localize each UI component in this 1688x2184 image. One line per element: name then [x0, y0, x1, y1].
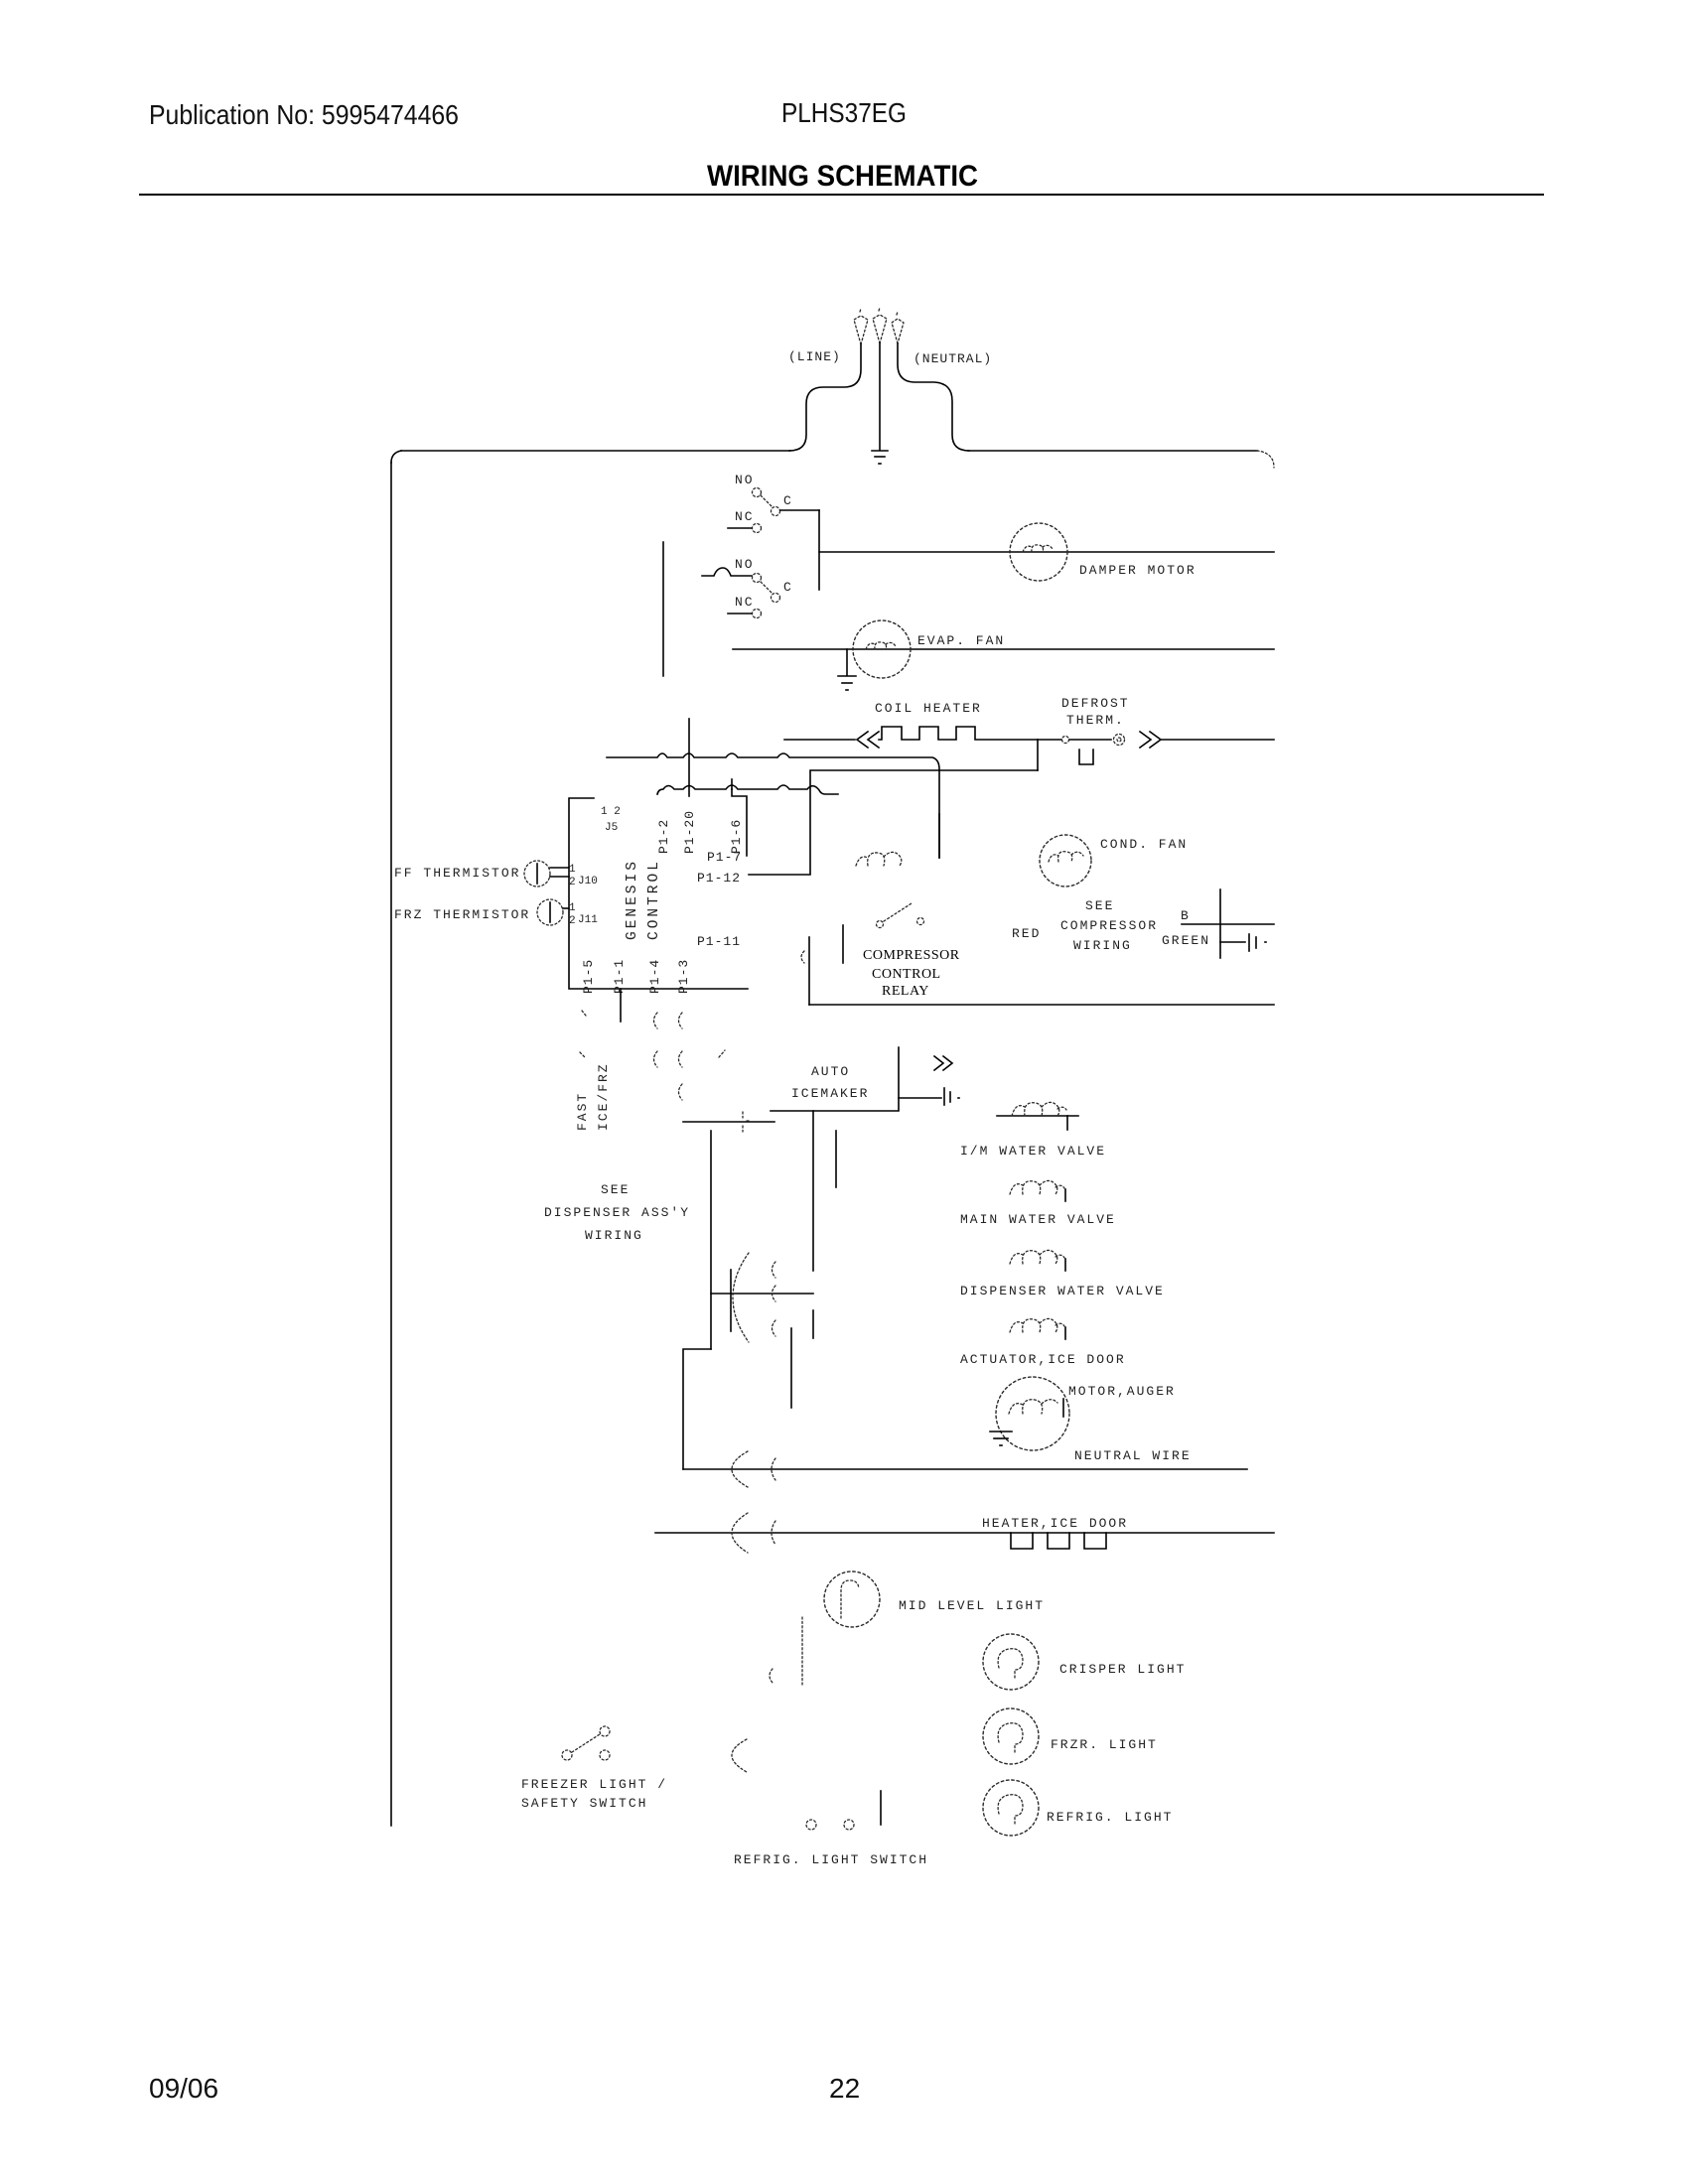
auger motor	[996, 1377, 1069, 1450]
wire: NEUTRAL prong lead down to top bus	[898, 343, 969, 451]
wire: fast ice feed line	[683, 1121, 774, 1123]
svg-text:1: 1	[569, 864, 576, 876]
damper switch (upper): moving contact arm	[761, 495, 773, 507]
wire: heater ice door line	[655, 1532, 1274, 1534]
wire: icemaker drop lower segment	[812, 1310, 814, 1338]
wire: dispenser cross horizontal	[711, 1293, 813, 1295]
wire: relay coil right riser top	[938, 814, 940, 858]
crisper light	[983, 1634, 1039, 1690]
svg-text:DISPENSER ASS'Y: DISPENSER ASS'Y	[544, 1205, 690, 1220]
svg-text:CONTROL: CONTROL	[872, 967, 941, 982]
svg-text:22: 22	[829, 2073, 860, 2104]
refrig light switch	[806, 1791, 881, 1830]
wire: neutral bus	[683, 1468, 1247, 1470]
svg-text:(LINE): (LINE)	[788, 349, 841, 364]
svg-text:NO: NO	[735, 557, 755, 572]
I/M water valve coil	[997, 1102, 1078, 1130]
svg-text:RED: RED	[1012, 926, 1041, 941]
svg-text:P1-6: P1-6	[729, 819, 744, 854]
wire: lower switch NC lead	[728, 613, 752, 614]
dispenser water valve coil	[1010, 1250, 1065, 1271]
connector arc below mid light	[770, 1669, 773, 1683]
wire: small vertical at dispenser cross	[730, 1270, 732, 1331]
svg-text:SAFETY SWITCH: SAFETY SWITCH	[521, 1796, 647, 1811]
svg-text:MOTOR,AUGER: MOTOR,AUGER	[1068, 1384, 1176, 1399]
wire: crossover line 1 (to compressor relay coil)	[607, 753, 939, 858]
svg-text:NC: NC	[735, 595, 755, 610]
svg-text:GENESIS: GENESIS	[625, 859, 640, 940]
wire: LINE prong lead down to top bus	[789, 344, 861, 451]
freezer door switch (lower): NO contact	[753, 574, 762, 583]
svg-text:AUTO: AUTO	[811, 1064, 850, 1079]
damper switch (upper): NO contact	[753, 488, 762, 497]
svg-text:COND. FAN: COND. FAN	[1100, 837, 1188, 852]
svg-text:1: 1	[569, 902, 576, 914]
wire: lower switch common lead with hump	[702, 568, 752, 576]
svg-text:DEFROST: DEFROST	[1061, 696, 1130, 711]
actuator ice door coil	[1010, 1318, 1065, 1339]
svg-text:C: C	[783, 580, 793, 595]
wire: crossover line 2 (P1-6 run)	[657, 785, 838, 794]
tick near icemaker feed	[719, 1050, 725, 1057]
connector single fast ice row	[679, 1084, 683, 1100]
wire: short vertical above genesis box	[662, 542, 664, 676]
wire: green capacitor lead	[1220, 941, 1245, 943]
wire: top bus right segment	[968, 450, 1257, 452]
svg-text:P1-12: P1-12	[697, 871, 741, 886]
wire: B line horizontal	[1182, 923, 1274, 925]
wire: junction riser from defrost line	[1037, 740, 1039, 770]
defrost coil heater element (square wave)	[879, 727, 1038, 740]
svg-text:FRZ THERMISTOR: FRZ THERMISTOR	[394, 907, 530, 922]
svg-text:B: B	[1181, 908, 1191, 923]
svg-text:C: C	[783, 493, 793, 508]
svg-text:P1-5: P1-5	[581, 959, 596, 994]
wire: FRZ thermistor lead	[563, 907, 569, 909]
svg-text:P1-20: P1-20	[682, 810, 697, 854]
defrost thermostat contact double circle	[1114, 735, 1125, 746]
svg-text:COMPRESSOR: COMPRESSOR	[863, 948, 960, 963]
svg-text:P1-4: P1-4	[647, 959, 662, 994]
wire: defrost line mid segment	[1069, 739, 1111, 741]
svg-text:J10: J10	[578, 876, 598, 887]
polarity ticks on fast ice feed	[743, 1112, 750, 1132]
wire: dispenser drop vertical	[710, 1131, 712, 1349]
svg-text:WIRING SCHEMATIC: WIRING SCHEMATIC	[707, 160, 978, 193]
title rule	[139, 194, 1544, 196]
svg-text:NO: NO	[735, 473, 755, 487]
connector arcs on heater line	[732, 1513, 775, 1553]
svg-text:HEATER,ICE DOOR: HEATER,ICE DOOR	[982, 1516, 1128, 1531]
svg-text:FAST: FAST	[575, 1092, 590, 1131]
connector arrows above icemaker	[934, 1056, 952, 1070]
freezer door switch (lower): NC contact	[753, 610, 762, 618]
dotted lead left of FAST label	[580, 1011, 586, 1057]
wire: compressor junction vertical	[1219, 889, 1221, 958]
wire: damper switch NC lead	[728, 527, 752, 529]
power plug prong NEUTRAL	[892, 312, 904, 343]
connector arc left of freezer light	[732, 1739, 747, 1772]
run capacitor plates	[1249, 934, 1266, 951]
wire: top bus left segment	[401, 450, 790, 452]
freezer door switch (lower): moving contact arm	[761, 582, 773, 594]
FF thermistor connector	[524, 861, 550, 887]
wire: relay output vertical	[808, 937, 810, 1005]
svg-text:ICE/FRZ: ICE/FRZ	[596, 1062, 611, 1131]
wire: FF thermistor pin 2	[550, 876, 569, 878]
wire: P1-6 drop elbow	[732, 789, 747, 856]
svg-text:P1-2: P1-2	[656, 819, 671, 854]
svg-text:GREEN: GREEN	[1162, 933, 1210, 948]
defrost thermostat contact small	[1062, 737, 1069, 744]
svg-text:I/M WATER VALVE: I/M WATER VALVE	[960, 1144, 1106, 1159]
evaporator fan motor	[853, 620, 911, 678]
svg-text:ACTUATOR,ICE DOOR: ACTUATOR,ICE DOOR	[960, 1352, 1126, 1367]
wire: evaporator fan feed	[733, 648, 1274, 650]
svg-text:1 2: 1 2	[601, 806, 621, 818]
compressor control relay switch	[877, 903, 924, 928]
wire: left bus vertical	[390, 463, 392, 1826]
wire: defrost line right segment	[1161, 739, 1274, 741]
wire: dashed drop to refrig light switch	[801, 1617, 803, 1686]
wire: P1-1 drop below genesis box	[620, 989, 622, 1022]
svg-text:FREEZER LIGHT /: FREEZER LIGHT /	[521, 1777, 667, 1792]
svg-text:WIRING: WIRING	[1073, 938, 1132, 953]
wire: P1-12 run to defrost junction	[749, 770, 1038, 875]
refrigerator light	[983, 1780, 1039, 1836]
svg-text:09/06: 09/06	[149, 2073, 218, 2104]
compressor control relay coil	[856, 852, 902, 866]
condenser fan motor	[1040, 835, 1091, 887]
svg-text:RELAY: RELAY	[882, 984, 929, 999]
wire: damper motor feed	[819, 551, 1274, 553]
svg-text:NC: NC	[735, 509, 755, 524]
connector arrows right of defrost thermostat	[1140, 732, 1161, 748]
svg-text:CONTROL: CONTROL	[646, 859, 662, 940]
svg-text:REFRIG. LIGHT: REFRIG. LIGHT	[1047, 1810, 1173, 1825]
svg-text:2: 2	[569, 915, 576, 927]
icemaker capacitor plate	[944, 1088, 959, 1105]
svg-text:J5: J5	[605, 822, 618, 834]
svg-text:NEUTRAL WIRE: NEUTRAL WIRE	[1074, 1448, 1192, 1463]
wire: dispenser jog to neutral	[683, 1349, 711, 1469]
wire: aux drop vertical	[835, 1131, 837, 1187]
wire: long vertical through crossover lines	[688, 719, 690, 796]
wire: damper switch C to riser	[780, 509, 819, 511]
FRZ thermistor connector	[537, 899, 563, 925]
svg-text:P1-11: P1-11	[697, 934, 741, 949]
svg-text:MID LEVEL LIGHT: MID LEVEL LIGHT	[899, 1598, 1045, 1613]
svg-text:CRISPER LIGHT: CRISPER LIGHT	[1059, 1662, 1186, 1677]
wire: damper switch riser vertical	[818, 510, 820, 590]
wire: top-left rounded corner	[391, 451, 401, 463]
genesis control box outline	[569, 798, 748, 989]
wire: defrost heater line left segment	[784, 739, 855, 741]
svg-text:DISPENSER WATER VALVE: DISPENSER WATER VALVE	[960, 1284, 1165, 1298]
svg-text:MAIN WATER VALVE: MAIN WATER VALVE	[960, 1212, 1116, 1227]
damper motor M1	[1010, 523, 1067, 581]
svg-text:COMPRESSOR: COMPRESSOR	[1060, 918, 1158, 933]
wire: ground prong stem	[879, 343, 881, 450]
svg-text:PLHS37EG: PLHS37EG	[781, 97, 907, 128]
svg-text:2: 2	[569, 877, 576, 888]
svg-text:P1-7: P1-7	[707, 850, 742, 865]
freezer door switch (lower): C contact	[772, 594, 780, 603]
main water valve coil	[1010, 1180, 1065, 1201]
connector pair below genesis box	[654, 1013, 683, 1028]
power plug prong GROUND	[873, 308, 887, 343]
junction tick on crossover line 2	[731, 779, 733, 789]
wire: top-right rounded corner	[1257, 451, 1274, 468]
wire: compressor feed bottom	[809, 1004, 1274, 1006]
svg-text:REFRIG. LIGHT SWITCH: REFRIG. LIGHT SWITCH	[734, 1852, 928, 1867]
connector big arc at dispenser cross	[733, 1253, 749, 1342]
svg-text:P1-1: P1-1	[612, 959, 627, 994]
svg-text:EVAP. FAN: EVAP. FAN	[917, 633, 1005, 648]
freezer light	[983, 1708, 1039, 1764]
ground symbol at auger motor	[990, 1432, 1012, 1445]
mid level light	[824, 1571, 880, 1627]
freezer light safety switch	[562, 1726, 610, 1760]
svg-text:FRZR. LIGHT: FRZR. LIGHT	[1051, 1737, 1158, 1752]
svg-text:WIRING: WIRING	[585, 1228, 643, 1243]
svg-text:COIL HEATER: COIL HEATER	[875, 701, 982, 716]
svg-text:(NEUTRAL): (NEUTRAL)	[914, 351, 992, 366]
power plug prong LINE	[854, 309, 868, 344]
wire: icemaker drop vertical	[812, 1111, 814, 1271]
wire: heater drop vertical	[790, 1328, 792, 1408]
connector pair fast ice row	[654, 1051, 683, 1067]
damper switch (upper): C contact	[772, 507, 780, 516]
svg-text:SEE: SEE	[1085, 898, 1114, 913]
connector arrows on defrost line	[857, 732, 879, 748]
ground symbol at evap fan	[838, 649, 856, 690]
svg-text:Publication No: 5995474466: Publication No: 5995474466	[149, 99, 459, 130]
ground symbol at plug	[872, 451, 888, 464]
svg-text:DAMPER MOTOR: DAMPER MOTOR	[1079, 563, 1196, 578]
svg-text:SEE: SEE	[601, 1182, 630, 1197]
wire: FF thermistor pin 1	[550, 867, 569, 869]
wire: icemaker to capacitor	[899, 1097, 941, 1099]
auto icemaker bracket	[771, 1047, 899, 1111]
heater ice door element (square wave)	[1011, 1533, 1106, 1549]
svg-text:J11: J11	[578, 914, 598, 926]
wire: relay switch left vertical	[842, 925, 844, 963]
svg-text:P1-3: P1-3	[676, 959, 691, 994]
connector big arc on neutral bus	[732, 1451, 775, 1487]
svg-text:THERM.: THERM.	[1066, 713, 1125, 728]
damper switch (upper): NC contact	[753, 524, 762, 533]
connector arc on relay output	[801, 951, 804, 963]
connector small arcs at dispenser cross	[773, 1262, 776, 1336]
defrost thermostat bracket	[1079, 750, 1093, 764]
svg-text:ICEMAKER: ICEMAKER	[791, 1086, 869, 1101]
svg-text:FF THERMISTOR: FF THERMISTOR	[394, 866, 520, 881]
